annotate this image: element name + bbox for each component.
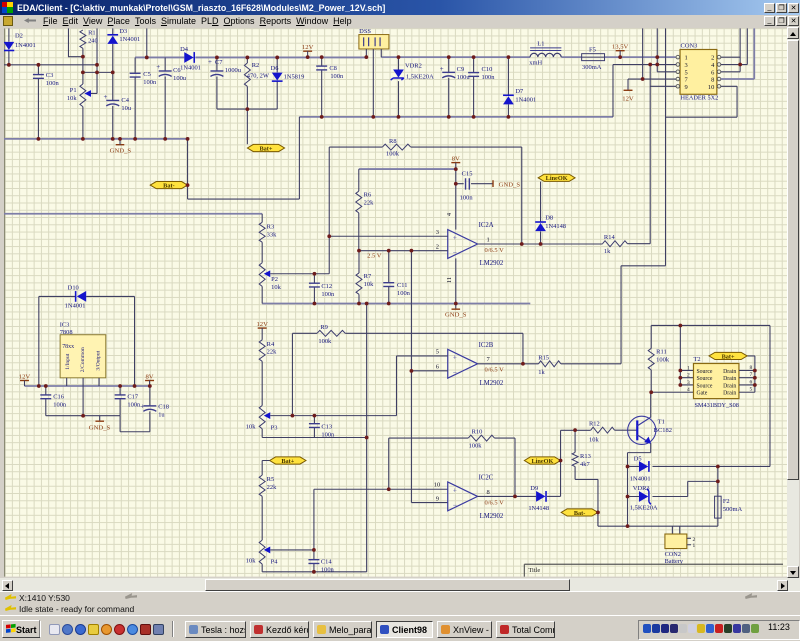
svg-text:12V: 12V <box>256 321 268 328</box>
wire 12V stub2 <box>627 79 629 90</box>
svg-text:R6: R6 <box>364 192 372 199</box>
flag LineOK <box>538 174 575 182</box>
wire IC2A out wire <box>478 243 603 245</box>
svg-text:1N5819: 1N5819 <box>284 74 305 81</box>
wire CON3 pin4 wire <box>721 28 747 64</box>
wire node y63.6 <box>4 64 97 66</box>
power port 12V <box>622 90 634 102</box>
op-amp IC2B <box>448 342 504 387</box>
resistor R2 <box>244 57 270 109</box>
wire CON3 pin6 wire <box>721 71 740 73</box>
svg-text:7808: 7808 <box>60 329 73 336</box>
svg-text:R8: R8 <box>389 138 397 145</box>
capacitor C18 <box>140 386 169 432</box>
svg-text:R5: R5 <box>267 476 275 483</box>
svg-text:C9: C9 <box>457 66 465 73</box>
svg-text:R7: R7 <box>364 273 372 280</box>
svg-text:GND_S: GND_S <box>89 424 111 431</box>
svg-text:100k: 100k <box>386 151 400 158</box>
power port 8V <box>451 156 460 163</box>
flag Bat+ <box>270 457 306 465</box>
svg-text:LM2902: LM2902 <box>480 513 504 520</box>
wire riser x147.5 <box>146 28 148 57</box>
wire GND stub IC2A <box>455 303 457 309</box>
svg-text:R12: R12 <box>589 420 600 427</box>
wire T2 pins123 link <box>680 325 693 384</box>
diode D6 <box>271 57 305 109</box>
wire LineOK riser <box>560 430 562 496</box>
wire rail GND_S y303 <box>262 302 530 304</box>
status bar <box>0 591 800 616</box>
resistor R1 <box>80 29 98 72</box>
wire 8V stub <box>455 163 457 169</box>
connector CON2 Battery <box>665 526 696 565</box>
svg-text:0/6.5 V: 0/6.5 V <box>485 499 505 506</box>
menu bar <box>0 15 800 27</box>
svg-text:P3: P3 <box>271 424 278 431</box>
wire rail 12V top-east <box>381 56 676 58</box>
capacitor C6 <box>156 57 187 138</box>
potentiometer P3 <box>246 405 397 431</box>
svg-text:C4: C4 <box>121 97 129 104</box>
svg-text:100u: 100u <box>173 75 187 82</box>
sheet border left <box>3 28 5 576</box>
ground GND_S <box>110 145 132 155</box>
wire R13 to Bat- <box>575 479 598 526</box>
svg-text:+: + <box>453 233 457 242</box>
svg-text:10k: 10k <box>271 284 281 291</box>
wire IC2B out wire <box>478 363 539 365</box>
svg-text:1k: 1k <box>604 248 611 255</box>
wire Bat+ drop <box>246 109 248 144</box>
svg-text:2: 2 <box>711 55 714 62</box>
svg-text:L1: L1 <box>537 40 544 47</box>
diode D7 <box>503 57 536 117</box>
wire rail GND y138 <box>4 138 188 140</box>
wire CON3 pin9 wire <box>650 65 676 244</box>
wire 13.5V stub <box>619 51 621 57</box>
wire IC2A pin2 wire <box>359 250 448 252</box>
svg-text:1: 1 <box>487 236 490 243</box>
svg-text:C14: C14 <box>321 559 333 566</box>
wire rail Bat- y213 <box>4 213 262 215</box>
svg-text:100n: 100n <box>321 567 335 574</box>
svg-text:5: 5 <box>436 349 439 356</box>
svg-text:0/6.5 V: 0/6.5 V <box>485 247 505 254</box>
svg-text:P2: P2 <box>271 276 278 283</box>
svg-text:12V: 12V <box>19 373 31 380</box>
wire GND stub IC3 <box>99 416 101 421</box>
diode D9 <box>528 485 560 512</box>
svg-text:BC182: BC182 <box>654 427 672 434</box>
svg-text:33k: 33k <box>267 231 277 238</box>
svg-text:8: 8 <box>487 489 490 496</box>
svg-text:100n: 100n <box>143 79 157 86</box>
diode D5 <box>628 456 770 483</box>
svg-text:C15: C15 <box>462 171 473 178</box>
svg-text:1000u: 1000u <box>225 67 242 74</box>
svg-text:R2: R2 <box>252 62 260 69</box>
svg-text:10u: 10u <box>121 105 131 112</box>
svg-text:100n: 100n <box>482 74 496 81</box>
svg-text:GND_S: GND_S <box>499 181 521 188</box>
op-amp IC2A <box>448 222 504 267</box>
svg-text:LineOK: LineOK <box>532 458 554 465</box>
svg-text:1: 1 <box>685 55 688 62</box>
svg-text:100n: 100n <box>330 73 344 80</box>
fuse F2 <box>715 466 743 526</box>
svg-text:C3: C3 <box>46 72 54 79</box>
wire GND stub <box>119 139 121 145</box>
fuse F5 <box>582 46 605 71</box>
svg-text:Bat-: Bat- <box>163 182 174 189</box>
svg-text:Source: Source <box>696 376 712 382</box>
wire IC2A pin4 riser <box>455 169 457 229</box>
svg-text:C8: C8 <box>329 65 337 72</box>
diode D4 <box>180 46 201 72</box>
wire Bat- bottom wire <box>598 512 718 526</box>
resistor R12 <box>589 420 637 443</box>
svg-text:3: 3 <box>687 380 690 386</box>
wire IC2B pin5 wire <box>396 356 447 416</box>
resonator DSS <box>359 28 389 117</box>
capacitor C9 <box>440 57 471 117</box>
svg-text:D8: D8 <box>545 214 553 221</box>
svg-text:GND_S: GND_S <box>110 147 132 154</box>
svg-text:−: − <box>453 368 457 377</box>
svg-text:Bat+: Bat+ <box>281 458 294 465</box>
wire T1 emitter <box>628 443 651 526</box>
svg-text:+: + <box>103 93 107 101</box>
TVS VDR2 <box>391 57 434 117</box>
wire C18 bottom link <box>120 416 150 432</box>
capacitor C5 <box>130 57 157 138</box>
wire comp out y431 <box>561 429 591 431</box>
capacitor C10 <box>468 57 495 117</box>
flag Bat+ <box>247 144 284 152</box>
wire rail 12V top-mid <box>195 56 366 58</box>
wire P4 bottom <box>262 564 366 572</box>
svg-text:1N4001: 1N4001 <box>65 302 86 309</box>
svg-text:1N4001: 1N4001 <box>630 476 651 483</box>
svg-text:LineOK: LineOK <box>546 175 568 182</box>
svg-text:2: 2 <box>692 537 695 543</box>
wire rail 8V y168 <box>359 168 456 170</box>
wire pin10 to IC2B out <box>621 266 665 364</box>
svg-text:100n: 100n <box>321 431 335 438</box>
svg-text:1: 1 <box>687 365 690 371</box>
capacitor C8 <box>316 57 344 117</box>
mosfet T2 SM431BDY <box>687 356 755 409</box>
svg-text:1k: 1k <box>538 369 545 376</box>
diode D8 <box>535 182 566 244</box>
resistor R5 <box>259 475 277 540</box>
wire D10 loop right <box>134 296 136 386</box>
svg-text:3/Output: 3/Output <box>96 350 102 370</box>
svg-text:R3: R3 <box>267 223 275 230</box>
svg-text:+: + <box>453 353 457 362</box>
wire CON3 pin2 wire <box>721 28 740 71</box>
svg-text:Drain: Drain <box>723 383 736 389</box>
svg-text:1N4148: 1N4148 <box>545 223 566 230</box>
wire GND riser x368 <box>366 303 368 571</box>
svg-text:1N4001: 1N4001 <box>119 36 140 43</box>
svg-text:100n: 100n <box>397 290 411 297</box>
svg-text:4k7: 4k7 <box>580 461 590 468</box>
svg-text:2: 2 <box>687 373 690 379</box>
svg-text:8: 8 <box>711 77 714 84</box>
wire pin10 riser x315 <box>313 489 315 550</box>
capacitor C12 <box>309 274 335 304</box>
capacitor C13 <box>309 416 335 439</box>
resistor R8 <box>329 138 522 158</box>
svg-text:100k: 100k <box>656 357 670 364</box>
power port 12V <box>302 44 314 51</box>
svg-text:C18: C18 <box>158 403 169 410</box>
svg-text:10k: 10k <box>246 423 256 430</box>
title bar <box>0 0 800 15</box>
diode D2 <box>4 28 36 64</box>
TVS VDR3 <box>628 485 688 511</box>
svg-text:C11: C11 <box>397 282 408 289</box>
svg-text:Bat-: Bat- <box>574 510 585 517</box>
svg-text:13,5V: 13,5V <box>612 43 629 50</box>
wire node y108 <box>217 108 277 110</box>
svg-text:D10: D10 <box>68 285 79 292</box>
svg-text:D5: D5 <box>634 456 642 463</box>
wire CON3 pin10 route <box>666 28 738 265</box>
wire Bat+ stub <box>262 460 269 475</box>
taskbar <box>0 615 800 641</box>
svg-text:VDR3: VDR3 <box>633 485 650 492</box>
wire IC2A pin3 wire <box>329 235 447 237</box>
svg-text:0/6.5 V: 0/6.5 V <box>485 367 505 374</box>
svg-text:IC2A: IC2A <box>479 222 494 229</box>
svg-text:1u: 1u <box>158 411 165 418</box>
svg-text:F5: F5 <box>589 46 596 53</box>
svg-text:Bat+: Bat+ <box>259 145 272 152</box>
resistor R3 <box>259 222 277 262</box>
svg-text:+: + <box>140 402 144 410</box>
svg-text:D2: D2 <box>15 32 23 39</box>
wire CON3 pin3 net <box>613 65 676 117</box>
flag Bat+ <box>709 352 747 360</box>
svg-text:100n: 100n <box>53 401 67 408</box>
flag Bat- <box>561 509 598 517</box>
capacitor C4 <box>103 72 131 138</box>
svg-text:Drain: Drain <box>723 369 736 375</box>
svg-text:+: + <box>208 58 212 66</box>
svg-text:T2: T2 <box>693 356 700 363</box>
svg-text:CON3: CON3 <box>681 42 698 49</box>
svg-text:T1: T1 <box>658 418 665 425</box>
svg-text:2.5 V: 2.5 V <box>367 253 382 260</box>
wire IC2C pin10 wire <box>314 488 448 490</box>
svg-text:Bat+: Bat+ <box>722 353 735 360</box>
resistor R14 <box>603 234 651 255</box>
svg-text:P1: P1 <box>70 87 77 94</box>
capacitor C17 <box>115 386 141 416</box>
svg-text:R14: R14 <box>604 234 616 241</box>
wire R9 to IC2B out <box>522 333 524 363</box>
svg-text:+: + <box>440 65 444 73</box>
power port 12V <box>19 373 31 380</box>
svg-text:470, 2W: 470, 2W <box>247 73 270 80</box>
wire P3 bottom <box>262 429 366 438</box>
svg-text:100n: 100n <box>460 195 474 202</box>
power port 13,5V <box>612 43 629 50</box>
svg-text:100n: 100n <box>321 291 335 298</box>
flag LineOK <box>524 457 560 465</box>
wire R1 bottom to left riser <box>68 28 82 56</box>
svg-text:IC2B: IC2B <box>479 342 494 349</box>
svg-text:R1: R1 <box>88 29 96 36</box>
wire IC3 gnd wire <box>46 415 120 417</box>
resistor R11 <box>648 325 670 392</box>
power port 8V <box>145 373 154 380</box>
svg-text:12V: 12V <box>622 96 634 103</box>
ground GND_S <box>489 2 521 189</box>
svg-text:4: 4 <box>687 387 690 393</box>
junction dots <box>7 63 11 67</box>
inductor L1 <box>529 40 561 66</box>
svg-text:Title: Title <box>528 567 540 574</box>
svg-text:9: 9 <box>685 84 688 91</box>
svg-text:3: 3 <box>436 229 439 236</box>
wire T1 collector <box>650 392 652 417</box>
svg-text:1N4001: 1N4001 <box>15 42 36 49</box>
svg-text:1/Input: 1/Input <box>65 353 71 370</box>
resistor R7 <box>356 251 374 304</box>
wire riser x330.9 <box>328 147 330 274</box>
svg-text:IC3: IC3 <box>60 321 70 328</box>
wire 2.5V riser x413 <box>410 251 412 503</box>
svg-text:1N4148: 1N4148 <box>528 505 549 512</box>
wire T2 right link <box>747 356 755 392</box>
capacitor C14 <box>308 550 334 574</box>
svg-text:22k: 22k <box>267 484 277 491</box>
transistor T1 BC182 <box>628 416 672 444</box>
svg-text:78xx: 78xx <box>62 344 74 350</box>
svg-text:22k: 22k <box>364 200 374 207</box>
svg-text:GND_S: GND_S <box>445 311 467 318</box>
svg-text:8V: 8V <box>452 156 460 163</box>
svg-text:−: − <box>453 248 457 257</box>
wire R3 top corner <box>261 214 263 223</box>
wire 12V stub R4 <box>261 328 263 340</box>
wire D10 loop left <box>38 296 40 386</box>
svg-text:100n: 100n <box>46 80 60 87</box>
capacitor C7 <box>208 57 242 109</box>
potentiometer P1 <box>67 72 97 138</box>
svg-text:R13: R13 <box>580 453 591 460</box>
svg-text:VDR2: VDR2 <box>405 63 422 70</box>
ground GND_S <box>89 421 111 431</box>
wire IC2A pin11 <box>455 258 457 303</box>
svg-text:C5: C5 <box>143 71 151 78</box>
svg-text:Gate: Gate <box>696 391 707 397</box>
wire Bat- y198 to railB <box>188 117 300 199</box>
svg-text:D3: D3 <box>119 28 127 35</box>
svg-text:C10: C10 <box>482 66 493 73</box>
svg-text:10: 10 <box>708 84 714 91</box>
potentiometer P2 <box>259 263 329 291</box>
svg-text:R11: R11 <box>656 349 667 356</box>
horizontal scrollbar <box>0 578 800 591</box>
wire VDR3 to F2 <box>688 481 718 496</box>
svg-text:240: 240 <box>88 37 98 44</box>
svg-text:xmH: xmH <box>529 60 542 67</box>
connector CON3 <box>676 42 721 101</box>
diode D3 <box>107 28 140 72</box>
svg-text:12V: 12V <box>302 44 314 51</box>
wire Bat- drop x188 <box>187 139 189 199</box>
wire CON3 pin7 wire <box>628 28 676 79</box>
svg-text:IC2C: IC2C <box>479 475 494 482</box>
svg-text:C13: C13 <box>321 423 332 430</box>
wire vert x97.5 top <box>96 28 98 72</box>
svg-text:100k: 100k <box>318 338 332 345</box>
svg-text:8V: 8V <box>145 373 153 380</box>
svg-text:P4: P4 <box>271 559 279 566</box>
svg-text:1,5KE20A: 1,5KE20A <box>630 504 658 511</box>
svg-text:500mA: 500mA <box>723 506 743 513</box>
svg-text:D4: D4 <box>180 46 189 53</box>
svg-text:Drain: Drain <box>723 391 736 397</box>
svg-text:DSS: DSS <box>359 28 371 35</box>
svg-text:100u: 100u <box>457 74 471 81</box>
svg-text:2/Common: 2/Common <box>80 347 86 372</box>
capacitor C16 <box>40 386 67 416</box>
svg-text:F2: F2 <box>723 498 730 505</box>
resistor R9 <box>292 324 523 416</box>
svg-text:+: + <box>156 63 160 71</box>
wire P2 bottom <box>261 286 263 303</box>
wire right loop <box>769 325 771 466</box>
power port 12V <box>256 321 268 328</box>
svg-text:D6: D6 <box>271 65 280 72</box>
wire rail 12V top-west <box>135 56 184 58</box>
vertical scrollbar <box>787 27 799 578</box>
svg-text:D9: D9 <box>530 485 538 492</box>
svg-text:10: 10 <box>434 482 440 489</box>
resistor R13 <box>572 430 591 479</box>
wire IC2B pin6 wire <box>411 370 447 372</box>
capacitor C3 <box>33 65 60 139</box>
resistor R4 <box>259 340 277 406</box>
wire 8V stub IC3 <box>149 381 151 386</box>
flag Bat- <box>150 182 187 190</box>
svg-text:LM2902: LM2902 <box>480 380 504 387</box>
regulator IC3 7808 <box>60 321 106 415</box>
wire T2 top wire <box>651 324 770 326</box>
wire CON3 pin8 wire <box>721 28 754 79</box>
svg-text:LM2902: LM2902 <box>480 260 504 267</box>
svg-text:R10: R10 <box>472 428 483 435</box>
svg-text:10k: 10k <box>246 558 256 565</box>
svg-text:C12: C12 <box>321 283 332 290</box>
svg-text:R4: R4 <box>267 341 275 348</box>
svg-text:1N4001: 1N4001 <box>515 97 536 104</box>
wire node y71.2 <box>83 71 113 73</box>
svg-text:300mA: 300mA <box>582 64 602 71</box>
svg-text:2: 2 <box>436 243 439 250</box>
wire T2 gate wire <box>651 391 693 393</box>
svg-text:100n: 100n <box>127 401 141 408</box>
svg-text:C7: C7 <box>215 59 223 66</box>
svg-text:11: 11 <box>446 277 453 283</box>
resistor R10 <box>389 428 515 449</box>
